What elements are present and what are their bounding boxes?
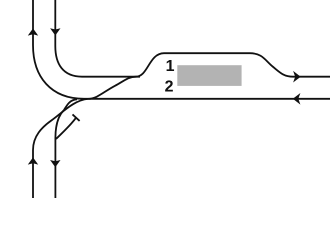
wire: south outbound line from junction down to bottom edge [55,99,77,200]
label track 1 [167,60,174,71]
arrow right (track 1 east) [293,71,301,83]
wire: dead-end stub siding [56,118,76,139]
buffer stop T-bar [73,114,80,121]
arrow down (top-right vertical) [50,28,60,35]
wire: south line through junction up to passing loop track 1 and east [33,53,330,200]
arrow up (top-left vertical) [28,28,38,35]
label track 2 [165,80,173,91]
platform (gray rectangle between tracks) [177,65,241,86]
arrow down (bottom-right vertical) [50,160,60,167]
arrow left (track 2 east) [293,93,301,105]
wire: north entry line curving to y=76.7 feeder [55,0,140,77]
arrow up (bottom-left vertical) [28,157,38,164]
wire: north exit line to track 2 (big left curve, then horizontal to east) [33,0,330,99]
